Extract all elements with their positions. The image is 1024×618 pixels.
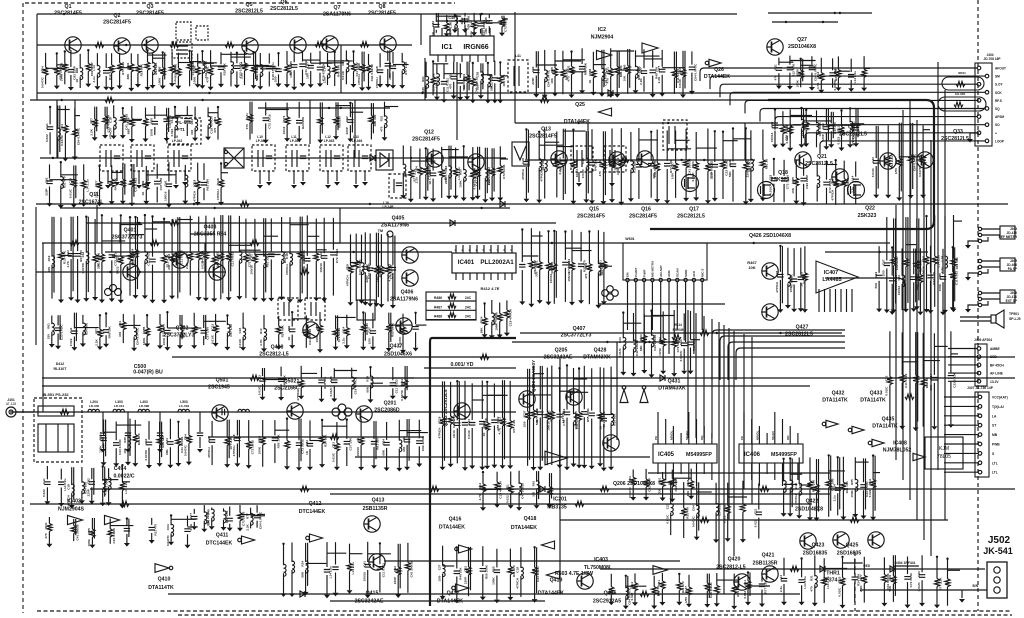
wire [650,132,652,161]
transistor Q5 [242,38,258,54]
wire bus [42,242,890,244]
junction [714,130,716,132]
capacitor [304,258,310,261]
wire [722,169,724,199]
wire [960,316,991,318]
wire [129,217,131,253]
resistor R614 [672,334,681,339]
wire bus [560,519,948,521]
wire [350,111,363,113]
wire [281,261,283,297]
ground [873,195,879,199]
svg-text:56K: 56K [490,85,494,91]
crystal plates [176,46,188,54]
wire [334,52,336,66]
svg-text:C18: C18 [285,253,289,259]
wire bus [10,411,516,413]
ground [390,85,396,89]
svg-text:68K: 68K [300,571,304,577]
wire [168,108,170,132]
pin [684,278,687,281]
wire [171,51,173,65]
svg-text:47P/CH: 47P/CH [193,190,197,202]
resistor network R486-R488 [426,292,476,320]
wire [132,118,142,120]
svg-text:R19 56K: R19 56K [223,63,227,76]
wire [178,62,192,64]
svg-text:100/16: 100/16 [897,286,901,296]
wire [855,185,857,204]
svg-text:LTL: LTL [992,461,998,465]
resistor [226,253,231,261]
svg-text:C11: C11 [201,250,205,256]
capacitor [776,68,782,71]
svg-text:2.2K: 2.2K [94,191,98,198]
svg-text:C64: C64 [833,68,837,74]
svg-text:MB: MB [992,433,998,437]
pin wire [846,289,848,312]
svg-text:C64 0.047/C: C64 0.047/C [370,63,374,81]
inductor [437,73,440,85]
inductor [751,159,754,171]
wire [820,58,822,73]
wire [189,216,191,253]
wire bus [616,342,618,440]
svg-text:C37: C37 [306,62,310,68]
svg-text:C92 220P: C92 220P [421,437,425,451]
wire [106,107,108,129]
svg-text:C64: C64 [144,438,148,444]
inductor [636,66,639,78]
pin wire [835,289,837,312]
pin 6 J404 [985,107,989,111]
svg-text:4.7K: 4.7K [66,260,70,267]
wire [319,51,321,65]
resistor [760,160,765,168]
wire [800,59,802,70]
wire [941,75,985,77]
inductor [488,75,491,87]
wire [73,187,75,204]
wire [152,53,154,63]
svg-text:C41: C41 [567,261,571,267]
inductor L503 [238,409,249,412]
ground [787,86,793,90]
capacitor [829,73,835,76]
svg-text:P/WF: P/WF [642,269,646,277]
svg-text:2SC2814F5: 2SC2814F5 [54,11,82,17]
wire [773,159,775,176]
resistor [608,68,613,76]
svg-text:220P: 220P [393,577,397,584]
svg-text:C64: C64 [40,66,44,72]
wire [446,31,448,33]
wire [121,224,143,226]
svg-text:100K: 100K [850,489,854,497]
capacitor [157,433,163,436]
wire [783,160,785,176]
svg-text:0.01/C: 0.01/C [885,386,889,396]
svg-text:C11: C11 [754,508,758,514]
svg-text:2SC1945: 2SC1945 [208,385,230,391]
svg-text:R24: R24 [130,248,134,254]
svg-text:JK-541: JK-541 [983,546,1013,556]
wire [198,260,200,297]
svg-text:TM: TM [378,229,383,233]
wire bus [330,600,545,602]
wire [762,130,764,160]
ground [920,195,926,199]
inductor L503 [178,409,189,412]
junction [352,50,354,52]
wire [238,260,240,296]
wire bus [35,207,37,345]
resistor [118,256,123,264]
wire [805,130,807,143]
svg-text:R82: R82 [428,169,432,175]
jack pin [978,265,981,268]
svg-text:R19 56K: R19 56K [584,62,588,75]
svg-text:LC-033: LC-033 [179,404,190,408]
resistor [109,65,114,73]
resistor [175,251,180,259]
wire [826,161,828,180]
ground [169,83,175,87]
svg-text:2SD1046X8: 2SD1046X8 [788,44,816,50]
wire bus [944,90,946,520]
wire [610,48,612,68]
junction [151,215,153,217]
svg-text:56K: 56K [874,282,878,288]
junction [64,50,66,52]
capacitor [330,252,336,255]
resistor [284,65,289,73]
transistor Q203 [519,391,535,407]
capacitor [201,182,207,185]
wire bus [525,159,755,161]
svg-text:220P: 220P [476,83,480,90]
pin wire [696,463,698,486]
pin wire [327,171,329,184]
svg-text:2SC2814F5: 2SC2814F5 [368,11,396,17]
svg-text:R12: R12 [259,328,263,334]
junction [572,129,574,131]
svg-text:330: 330 [535,271,539,276]
svg-text:0.01/C: 0.01/C [678,78,682,88]
junction [432,60,434,62]
IC U406 M54995FP [739,444,803,463]
svg-text:C23: C23 [210,324,214,330]
wire [104,107,106,116]
capacitor [275,69,281,72]
wire [401,71,403,85]
svg-text:L14 2.2u: L14 2.2u [85,179,89,191]
junction [129,216,131,218]
svg-text:2SC2812L5: 2SC2812L5 [785,332,813,338]
ground [760,198,766,202]
svg-text:R45 10K: R45 10K [113,177,117,190]
resistor [680,69,685,77]
wire [145,228,157,230]
wire [202,62,214,64]
svg-text:47P/CH: 47P/CH [296,389,300,401]
resistor [129,119,134,127]
wire [51,265,53,299]
svg-text:C18: C18 [794,483,798,489]
wire [648,472,830,474]
ground [143,201,149,205]
wire [162,52,164,67]
wire [238,216,240,252]
wire [311,62,333,64]
capacitor [689,67,695,70]
svg-text:IC405: IC405 [658,452,675,458]
ground [251,85,257,89]
ground [109,87,115,91]
svg-text:C23 0.01/C: C23 0.01/C [112,527,116,543]
svg-text:100K: 100K [495,323,499,331]
svg-text:100K: 100K [60,73,64,81]
transistor Q12 [427,151,443,167]
wire [923,129,930,131]
wire [544,79,546,95]
wire [652,51,654,68]
ground [263,140,269,144]
svg-text:R19: R19 [535,408,539,414]
svg-text:Q17: Q17 [689,207,699,213]
pin wire [758,426,760,444]
svg-text:C11: C11 [785,125,789,131]
wire [948,356,977,358]
junction [174,106,176,108]
wire [111,53,113,65]
wire [319,73,321,84]
speaker SP501 [991,310,1004,328]
svg-text:R61: R61 [97,253,101,259]
svg-text:DO: DO [700,435,704,440]
svg-text:R61: R61 [421,76,425,82]
svg-text:R31: R31 [584,262,588,268]
ground [967,139,973,143]
junction [98,165,100,167]
pin wire [766,433,768,444]
wire [850,80,852,88]
ground [166,204,172,208]
svg-text:47P/CH: 47P/CH [207,446,211,458]
winding [262,150,264,167]
inductor [802,119,805,131]
svg-text:C18: C18 [375,66,379,72]
transistor Q26 DTA144EK [709,59,721,66]
pin 9 J407 [978,470,982,474]
capacitor [334,156,340,159]
svg-text:100K: 100K [492,577,496,585]
ground [650,94,656,98]
svg-text:R77: R77 [245,513,249,519]
wire [268,72,270,87]
wire [157,174,175,176]
inductor [631,161,634,173]
wire [618,51,620,88]
inductor [264,256,267,268]
svg-text:L14 2.2u: L14 2.2u [853,71,857,83]
svg-text:R82: R82 [599,415,603,421]
svg-text:FT1: FT1 [177,127,185,132]
svg-text:68K: 68K [929,384,933,390]
svg-text:68K: 68K [479,327,483,333]
svg-text:R488: R488 [434,315,442,319]
winding [45,424,47,452]
wire [73,165,75,179]
svg-text:2.2K: 2.2K [95,339,99,346]
capacitor [299,64,305,67]
wire [676,139,690,141]
wire bus [339,208,341,243]
wire bus [30,503,812,505]
pin [634,278,637,281]
pin wire [680,463,682,474]
svg-text:56K: 56K [728,171,732,177]
wire [306,215,308,256]
svg-text:470: 470 [449,84,453,89]
ground [268,298,274,302]
wire [220,187,222,202]
junction [134,216,136,218]
inductor [239,251,242,263]
wire bus [36,14,38,100]
wire [392,52,394,63]
svg-text:2SC2814F5: 2SC2814F5 [577,214,605,220]
svg-text:J406 AF304: J406 AF304 [974,338,992,342]
ground [195,84,201,88]
svg-text:LP-14B: LP-14B [383,205,395,209]
resistor [332,66,337,74]
pin [497,245,499,253]
svg-text:2SA1179N6: 2SA1179N6 [381,223,409,229]
ground [145,182,151,186]
wire [159,437,161,448]
svg-text:0.022: 0.022 [723,515,727,523]
pin 8 J407 [978,461,982,465]
wire [601,50,603,70]
ground [803,143,809,147]
svg-text:C41 100/16: C41 100/16 [308,329,312,345]
svg-text:DTA144EK: DTA144EK [538,591,564,597]
svg-text:LD-014: LD-014 [114,404,125,408]
coil T5 [278,298,298,320]
svg-text:56K: 56K [888,585,892,591]
svg-text:0.047/C: 0.047/C [833,79,837,91]
wire bus [96,205,98,243]
wire [783,184,785,202]
svg-text:R19: R19 [490,74,494,80]
wire bus [420,14,422,45]
wire [249,122,251,140]
transistor Q14 [468,154,484,170]
wire [695,170,697,197]
svg-text:47P/CH: 47P/CH [357,74,361,86]
svg-text:330: 330 [421,87,425,92]
ground [470,100,476,104]
junction [525,128,527,130]
inductor [153,63,156,75]
svg-text:47P/CH: 47P/CH [67,494,71,506]
wire bus [930,140,932,556]
wire [790,114,812,116]
wire [538,132,540,160]
capacitor [648,163,654,166]
svg-text:330: 330 [402,447,406,452]
svg-text:C37: C37 [437,564,441,570]
svg-text:L14: L14 [322,66,326,72]
wire [72,217,74,292]
svg-text:C18 47P/CH: C18 47P/CH [499,480,503,498]
wire [298,126,300,139]
ground [196,297,202,301]
svg-text:C72 10/16: C72 10/16 [250,440,254,455]
wire [745,170,747,201]
transistor Q408 [303,322,319,338]
ground [366,87,372,91]
pin wire [758,463,760,486]
svg-text:C37: C37 [894,157,898,163]
wire [96,53,98,66]
pin 1 J406 [977,347,981,351]
svg-text:R31: R31 [606,67,610,73]
svg-text:R24 68K: R24 68K [324,434,328,447]
svg-text:R503 4.7E 1/8W: R503 4.7E 1/8W [555,571,593,577]
svg-text:C18: C18 [109,117,113,123]
svg-text:R31: R31 [449,73,453,79]
wire [473,13,475,21]
svg-text:R12: R12 [388,62,392,68]
wire [152,217,154,257]
wire [480,81,482,96]
resistor [615,67,620,75]
svg-text:R19 56K: R19 56K [955,256,959,269]
wire [910,123,912,155]
svg-text:220P: 220P [432,84,436,91]
wire [857,109,859,138]
wire [443,64,445,79]
svg-text:C18: C18 [437,416,441,422]
wire [803,108,805,138]
svg-text:R45: R45 [791,177,795,183]
svg-text:JD-708 16P: JD-708 16P [983,57,1001,61]
svg-text:DO: DO [786,435,790,440]
pin wire [184,171,186,181]
svg-text:Q433: Q433 [870,391,883,397]
svg-text:47P/CH: 47P/CH [437,427,441,439]
wire [707,129,709,164]
border frame bottom dashed [37,610,1012,612]
junction [277,52,279,54]
ground [362,182,368,186]
wire [146,174,172,176]
svg-text:C72 10/16: C72 10/16 [909,573,913,588]
ground [772,145,778,149]
wire bus [895,205,897,460]
transistor Q27 [767,39,783,55]
svg-text:R31: R31 [379,115,383,121]
wire [650,169,652,198]
ground [908,195,914,199]
svg-text:LD-046: LD-046 [89,404,100,408]
svg-text:DTA144EK: DTA144EK [437,599,463,605]
svg-text:C37: C37 [684,586,688,592]
svg-text:C72: C72 [282,115,286,121]
ground [203,298,209,302]
